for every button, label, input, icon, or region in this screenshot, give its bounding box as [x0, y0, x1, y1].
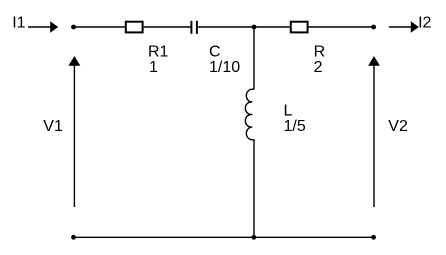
current arrow I2 [389, 21, 419, 33]
wire C to node B [198, 26, 254, 28]
svg-text:1/10: 1/10 [209, 59, 240, 76]
node bottom-right [371, 235, 376, 240]
wire node B to R2 [254, 26, 290, 28]
svg-text:I1: I1 [12, 14, 25, 31]
wire R1 to C [144, 26, 192, 28]
current arrow I1 [28, 21, 58, 33]
bottom wire [74, 236, 374, 238]
capacitor C plates [190, 21, 192, 34]
node bottom-left [71, 235, 76, 240]
node bottom-middle [251, 235, 256, 240]
voltage arrow V2 [368, 56, 380, 207]
wire inductor to bottom node [253, 140, 255, 238]
voltage arrow V1 [69, 56, 81, 207]
svg-text:1/5: 1/5 [284, 118, 306, 135]
wire top-left node to R1 [74, 26, 126, 28]
svg-text:V2: V2 [388, 118, 408, 135]
wire R2 to node C [309, 26, 374, 28]
svg-text:2: 2 [314, 59, 323, 76]
node top-right [371, 25, 376, 30]
inductor L [245, 89, 254, 140]
svg-text:1: 1 [149, 59, 158, 76]
resistor R1 [126, 22, 143, 33]
wire node B down to inductor [253, 27, 255, 90]
svg-text:I2: I2 [418, 14, 431, 31]
node B (top middle) [252, 25, 257, 30]
resistor R2 [291, 22, 308, 33]
node top-left [71, 25, 76, 30]
svg-text:V1: V1 [43, 118, 63, 135]
